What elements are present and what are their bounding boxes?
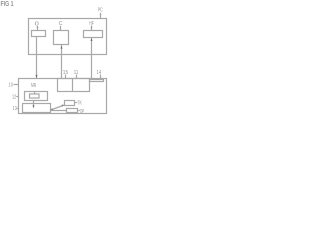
leader dash 13: [17, 108, 19, 110]
leader dash TK: [75, 102, 77, 104]
leader dash OP: [78, 110, 80, 112]
svg-text:OP: OP: [80, 109, 85, 115]
leader with up arrowhead into label HF: [91, 26, 93, 31]
scanner room box 10: [19, 79, 107, 114]
svg-text:13: 13: [13, 106, 17, 112]
keyboard box TK: [65, 101, 75, 106]
unit box C: [54, 31, 69, 45]
leader tick 14: [100, 75, 102, 80]
magnet box divided into 15 and 11: [58, 79, 90, 92]
arrowhead L2 up into box C: [61, 46, 63, 49]
leader tick 15: [65, 75, 67, 79]
wire OP to 13 (horizontal): [51, 110, 67, 112]
wire L2 (box C down to room 10): [61, 45, 63, 79]
svg-text:PC: PC: [98, 8, 103, 14]
svg-text:0: 0: [35, 21, 39, 27]
unit box HF: [84, 31, 103, 38]
control box 13: [23, 104, 51, 113]
arrowhead at TK end: [62, 105, 65, 107]
inner element of box 12: [30, 94, 40, 98]
arrowhead L3 up into box HF: [91, 38, 93, 41]
svg-text:10: 10: [9, 82, 13, 88]
unit box 9 (left flat box): [32, 31, 46, 37]
svg-text:FIG 1: FIG 1: [1, 1, 14, 8]
leader tick PC: [100, 13, 102, 19]
wire L3 (box HF down to magnet): [91, 38, 93, 79]
tick from box 12 top to inner element: [34, 92, 36, 95]
table box 14: [90, 80, 104, 82]
svg-text:MR: MR: [31, 83, 36, 89]
wire L1 (box 9 down to room 10): [36, 37, 38, 79]
divider between 15 and 11: [72, 79, 74, 92]
arrowhead down into box 13: [33, 105, 35, 108]
leader dash 12: [16, 96, 18, 98]
arrowhead at box 13 end: [50, 108, 53, 110]
svg-text:TK: TK: [78, 101, 83, 107]
arrowhead L1 down onto room top: [36, 75, 38, 78]
leader tick C: [60, 26, 62, 31]
wire 13 to TK (diagonal): [51, 106, 64, 111]
cabinet box PC: [29, 19, 107, 55]
svg-text:12: 12: [12, 94, 16, 100]
wire from box 12 down into box 13: [33, 101, 35, 107]
monitor box OP: [67, 109, 78, 113]
leader dash 10: [14, 84, 19, 86]
leader with up arrowhead into box 9: [37, 26, 39, 31]
leader tick 11: [76, 75, 78, 79]
coil box 12: [25, 92, 48, 101]
